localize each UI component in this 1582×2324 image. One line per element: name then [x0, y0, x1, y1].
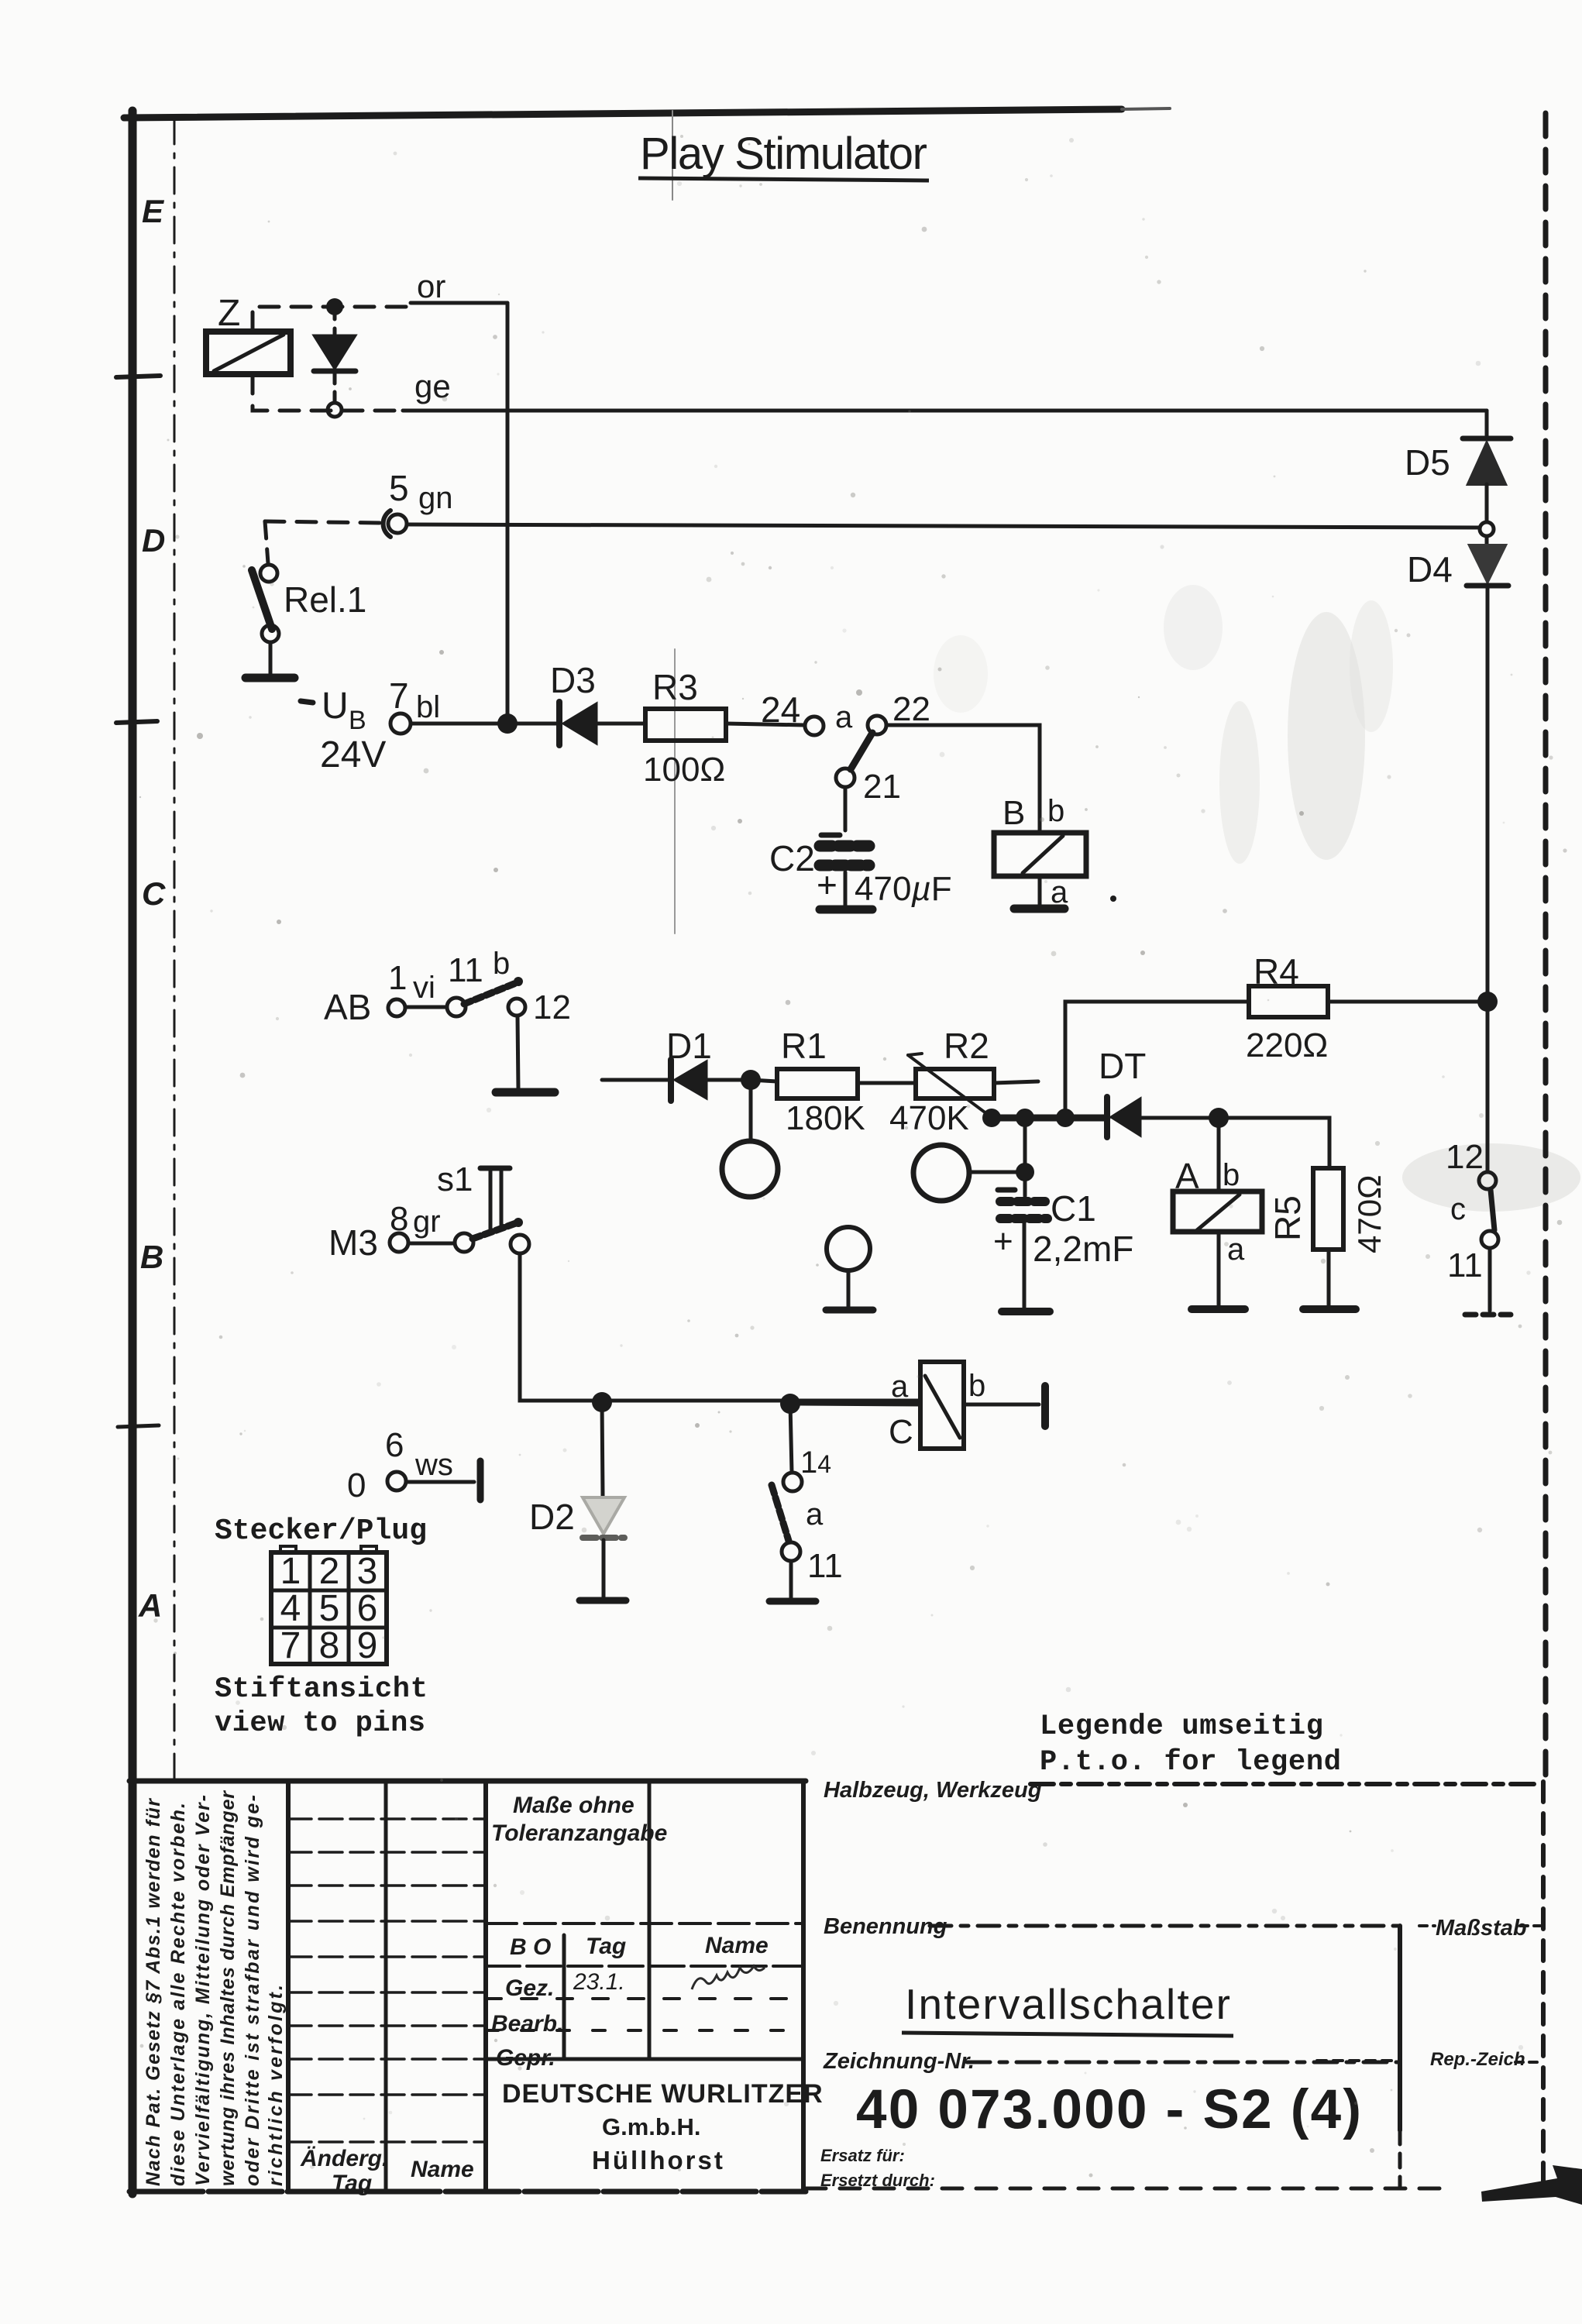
svg-text:b: b: [1223, 1158, 1240, 1192]
svg-text:220Ω: 220Ω: [1246, 1026, 1328, 1064]
svg-text:gr: gr: [413, 1205, 441, 1239]
ground R5: [1303, 1305, 1356, 1313]
svg-text:view to pins: view to pins: [215, 1707, 425, 1740]
ground relay B: [1014, 905, 1064, 913]
pushbutton s1: [480, 1168, 510, 1230]
resistor R1: [777, 1069, 858, 1098]
diode D5: [1463, 438, 1511, 521]
svg-text:2,2mF: 2,2mF: [1033, 1229, 1133, 1269]
labels lower section: [324, 947, 985, 1585]
svg-text:11: 11: [807, 1547, 843, 1585]
lamp La3: [827, 1227, 870, 1307]
svg-text:Gez.: Gez.: [505, 1975, 554, 2001]
switch M3 output contact: [511, 1235, 529, 1253]
wire or: [411, 301, 507, 305]
svg-text:Tag: Tag: [586, 1934, 626, 1959]
svg-text:Maße ohne: Maße ohne: [513, 1793, 635, 1818]
svg-text:470Ω: 470Ω: [1351, 1175, 1388, 1253]
wire R3 to terminal 24: [726, 724, 805, 725]
wire right rail to contact 12: [1486, 1002, 1490, 1171]
svg-text:Ersatz für:: Ersatz für:: [820, 2146, 905, 2165]
switch blade 22-21: [851, 733, 872, 769]
lamp La2: [913, 1145, 1016, 1201]
svg-text:DEUTSCHE WURLITZER: DEUTSCHE WURLITZER: [502, 2079, 824, 2109]
svg-text:+: +: [993, 1222, 1013, 1260]
bus wire main: [989, 1115, 1107, 1122]
svg-text:8: 8: [390, 1200, 408, 1238]
title block (decorative frame): [129, 1781, 1540, 2192]
diode D1: [671, 1060, 741, 1101]
revision arrow mark: [1481, 2165, 1582, 2205]
switch AB contact 1: [388, 999, 405, 1016]
terminal 7 UB: [390, 713, 411, 734]
terminal bar ws: [477, 1461, 484, 1500]
svg-text:2: 2: [319, 1551, 340, 1592]
svg-text:b: b: [968, 1369, 985, 1403]
wire dashed relay Z to node or: [253, 307, 411, 332]
wire down to Rel.1: [265, 521, 268, 563]
node D1 R1 junction: [741, 1070, 761, 1090]
svg-text:Legende umseitig: Legende umseitig: [1040, 1710, 1323, 1743]
svg-text:6: 6: [357, 1588, 378, 1629]
svg-text:Maßstab: Maßstab: [1436, 1916, 1527, 1941]
node 5gn on right rail: [1480, 522, 1494, 536]
switch M3 contact 8: [390, 1233, 408, 1252]
svg-text:a: a: [891, 1370, 909, 1404]
wire ge corner down to D5: [1485, 411, 1489, 438]
wire contact 12 down: [518, 1016, 518, 1089]
node lamp2 C1: [1016, 1163, 1034, 1181]
wire 21 to C2: [844, 787, 848, 830]
wire R1 to R2: [858, 1081, 916, 1085]
svg-text:180K: 180K: [786, 1099, 865, 1137]
labels middle section: [666, 1026, 1484, 1284]
ground AB 12: [496, 1088, 555, 1097]
svg-text:Stecker/Plug: Stecker/Plug: [215, 1514, 427, 1548]
svg-text:Benennung: Benennung: [824, 1914, 947, 1939]
company name: [502, 2079, 824, 2174]
switch M3 centre contact: [455, 1233, 473, 1252]
svg-text:Name: Name: [705, 1933, 769, 1958]
svg-text:5: 5: [389, 468, 409, 508]
wire right rail D4 to R4 node: [1486, 587, 1490, 1002]
ground Rel.1: [246, 674, 294, 682]
svg-text:D5: D5: [1405, 442, 1450, 483]
diode D2: [583, 1497, 624, 1597]
node R4 branch on bus: [1056, 1109, 1075, 1127]
wire ge to right rail: [403, 409, 1487, 413]
svg-text:21: 21: [863, 768, 901, 806]
wire M3 down to bottom bus: [520, 1253, 919, 1401]
wire node to switch 14: [790, 1404, 792, 1473]
scan smudges (decorative): [934, 585, 1580, 1212]
svg-text:Zeichnung-Nr.: Zeichnung-Nr.: [823, 2049, 975, 2074]
ground relay A: [1192, 1305, 1245, 1313]
svg-text:22: 22: [892, 690, 930, 728]
svg-text:Gepr.: Gepr.: [496, 2045, 555, 2071]
svg-text:U: U: [322, 686, 349, 727]
connector pin view Stecker/Plug: [215, 1514, 428, 1740]
svg-text:a: a: [1051, 875, 1068, 909]
legal notice rotated: [143, 1790, 287, 2186]
svg-text:or: or: [417, 268, 445, 304]
ground C1: [1002, 1308, 1050, 1315]
svg-text:23.1.: 23.1.: [573, 1969, 625, 1995]
svg-text:470µF: 470µF: [855, 870, 952, 908]
ground switch 11: [769, 1598, 816, 1605]
zone letters: [138, 193, 166, 1624]
svg-text:D1: D1: [666, 1026, 712, 1066]
svg-text:R4: R4: [1254, 951, 1299, 992]
svg-text:B: B: [1003, 794, 1025, 832]
relay B coil: [994, 833, 1086, 906]
svg-text:b: b: [493, 947, 510, 981]
svg-text:Rel.1: Rel.1: [284, 579, 366, 620]
svg-text:vi: vi: [413, 971, 435, 1005]
relay Z coil: [206, 332, 291, 374]
svg-text:6: 6: [385, 1426, 404, 1464]
switch AB contact 11: [447, 998, 466, 1016]
relay A coil: [1173, 1191, 1262, 1306]
svg-text:Tag: Tag: [332, 2171, 372, 2196]
svg-text:7: 7: [389, 676, 409, 716]
svg-text:a: a: [1227, 1232, 1245, 1267]
svg-text:b: b: [1047, 794, 1064, 828]
handwritten entries: [573, 1966, 765, 1995]
wire or vertical rail: [506, 303, 510, 724]
svg-text:3: 3: [357, 1551, 378, 1592]
svg-text:14: 14: [800, 1446, 831, 1480]
wire ws: [406, 1480, 474, 1484]
svg-text:Stiftansicht: Stiftansicht: [215, 1673, 428, 1706]
switch M3 blade: [473, 1223, 516, 1239]
svg-text:a: a: [835, 700, 853, 734]
note legend: [1040, 1710, 1341, 1779]
node D2 branch: [592, 1392, 612, 1412]
wire 5gn to right rail node: [407, 524, 1479, 528]
wire contact 11 to ground: [1488, 1249, 1492, 1311]
potentiometer R2: [908, 1054, 1038, 1116]
wire left rail to D1: [602, 1078, 671, 1082]
svg-text:11: 11: [1447, 1246, 1483, 1284]
svg-text:C1: C1: [1051, 1188, 1096, 1229]
switch contact 11 right: [1481, 1231, 1498, 1248]
svg-text:24: 24: [761, 689, 800, 730]
wire bus down to C1: [1023, 1118, 1027, 1196]
svg-text:E: E: [142, 193, 165, 229]
node R4 right rail: [1477, 992, 1498, 1012]
switch contact 12 right: [1479, 1172, 1496, 1189]
svg-text:D: D: [142, 522, 165, 559]
switch contact 21: [836, 768, 855, 787]
wire contact 11 to ground: [789, 1561, 793, 1598]
svg-text:12: 12: [1446, 1138, 1484, 1176]
ground contact 11: [1465, 1312, 1511, 1318]
svg-text:A: A: [138, 1587, 162, 1624]
ground D2: [579, 1597, 626, 1604]
node circle at ge: [328, 403, 342, 417]
svg-text:9: 9: [357, 1625, 378, 1666]
svg-text:Halbzeug, Werkzeug: Halbzeug, Werkzeug: [824, 1778, 1042, 1803]
svg-text:1: 1: [388, 959, 407, 997]
scan speckle noise (decorative): [139, 135, 1567, 2178]
svg-text:a: a: [806, 1497, 824, 1532]
svg-text:+: +: [817, 865, 837, 905]
switch contact 14: [783, 1473, 802, 1491]
relay C coil: [920, 1362, 964, 1449]
svg-text:Nach Pat. Gesetz §7 Abs.1 werd: Nach Pat. Gesetz §7 Abs.1 werden für: [143, 1798, 164, 2186]
svg-text:Rep.-Zeich: Rep.-Zeich: [1430, 2049, 1525, 2070]
wire R4 to right rail: [1328, 1000, 1480, 1004]
switch Rel.1: [252, 565, 279, 674]
svg-text:M3: M3: [328, 1222, 378, 1263]
node DT relay A junction: [1209, 1108, 1229, 1128]
svg-text:P.t.o. for legend: P.t.o. for legend: [1040, 1746, 1341, 1779]
resistor R4: [1249, 986, 1328, 1017]
svg-text:AB: AB: [324, 987, 371, 1027]
svg-text:12: 12: [533, 988, 571, 1026]
label -UB 24V: [301, 686, 386, 775]
ground C2: [820, 906, 872, 914]
svg-text:40 073.000 - S2 (4): 40 073.000 - S2 (4): [856, 2079, 1361, 2140]
node dot at or: [326, 298, 343, 315]
svg-text:diese Unterlage alle Rechte vo: diese Unterlage alle Rechte vorbeh.: [167, 1803, 189, 2186]
wire relay C to terminal b: [964, 1403, 1039, 1407]
svg-text:c: c: [1450, 1192, 1466, 1226]
svg-text:A: A: [1175, 1156, 1199, 1196]
wire node down to relay A: [1217, 1118, 1221, 1191]
node switch 14 branch: [780, 1394, 800, 1414]
svg-text:Toleranzangabe: Toleranzangabe: [491, 1820, 667, 1846]
node C1 branch on bus: [1016, 1109, 1034, 1127]
svg-text:gn: gn: [418, 481, 453, 515]
wire R4 left corner down to bus: [1065, 1002, 1249, 1116]
lamp La1: [722, 1090, 778, 1197]
resistor R5: [1313, 1168, 1343, 1306]
switch blade 14-11: [772, 1485, 789, 1541]
wire AB: [406, 1006, 447, 1009]
svg-text:C2: C2: [769, 838, 815, 878]
svg-text:Name: Name: [411, 2157, 474, 2182]
wire 5gn dashed: [265, 521, 381, 523]
svg-text:bl: bl: [416, 690, 440, 724]
wire D2 branch: [602, 1402, 603, 1496]
svg-text:7: 7: [280, 1625, 301, 1666]
wire bus to relay C: [800, 1404, 920, 1404]
svg-text:Bearb.: Bearb.: [491, 2011, 563, 2037]
wire M3: [408, 1242, 455, 1246]
svg-text:1: 1: [280, 1551, 301, 1592]
node junction UB rail: [497, 713, 518, 734]
svg-text:Hüllhorst: Hüllhorst: [592, 2146, 725, 2174]
svg-text:100Ω: 100Ω: [643, 751, 725, 789]
terminal 24: [805, 717, 824, 735]
svg-text:oder Dritte ist strafbar und w: oder Dritte ist strafbar und wird ge-: [242, 1795, 263, 2186]
switch contact 11 bottom: [782, 1542, 800, 1561]
switch contact 22: [868, 716, 886, 734]
svg-text:C: C: [142, 875, 166, 912]
node pot wiper on bus: [982, 1109, 1001, 1127]
svg-text:24V: 24V: [320, 734, 386, 775]
wire to R5: [1219, 1118, 1329, 1168]
svg-text:11: 11: [448, 951, 483, 989]
svg-text:B: B: [349, 706, 366, 735]
svg-text:D4: D4: [1407, 549, 1453, 590]
terminal bar b: [1041, 1386, 1049, 1426]
resistor R3: [645, 709, 726, 741]
svg-text:4: 4: [280, 1588, 301, 1629]
svg-text:R5: R5: [1267, 1195, 1308, 1241]
sheet frame (decorative): [124, 109, 1122, 118]
svg-text:D2: D2: [529, 1497, 575, 1537]
terminal 5 connector: [383, 511, 407, 537]
switch blade c: [1491, 1190, 1494, 1230]
svg-text:ws: ws: [414, 1448, 453, 1482]
svg-text:R2: R2: [944, 1026, 989, 1066]
wire node to D3: [518, 722, 556, 726]
capacitor C1: [998, 1190, 1047, 1308]
svg-text:8: 8: [319, 1625, 340, 1666]
diode D3: [559, 702, 645, 745]
switch AB blade to b: [464, 983, 516, 1004]
svg-text:B: B: [140, 1239, 163, 1275]
svg-text:C: C: [889, 1413, 913, 1451]
svg-text:470K: 470K: [889, 1099, 969, 1137]
svg-text:B O: B O: [510, 1934, 551, 1960]
ground lamp La3: [826, 1307, 873, 1314]
svg-text:R1: R1: [781, 1026, 827, 1066]
svg-text:Intervallschalter: Intervallschalter: [905, 1980, 1230, 2028]
svg-text:0: 0: [347, 1466, 366, 1504]
switch AB contact 12: [508, 999, 525, 1016]
svg-text:Z: Z: [218, 293, 240, 334]
svg-text:Ersetzt durch:: Ersetzt durch:: [820, 2171, 935, 2190]
svg-text:wertung ihres Inhaltes durch E: wertung ihres Inhaltes durch Empfänger: [217, 1790, 239, 2186]
svg-text:5: 5: [319, 1588, 340, 1629]
wire 7bl to node: [411, 722, 499, 726]
svg-text:s1: s1: [437, 1160, 473, 1198]
wire 22 to relay B: [886, 725, 1040, 831]
title block small labels: [300, 1778, 1527, 2196]
diode across relay Z: [314, 307, 356, 402]
labels top section: [218, 268, 1453, 1064]
terminal 6 ws: [387, 1472, 406, 1490]
svg-text:G.m.b.H.: G.m.b.H.: [602, 2113, 700, 2140]
svg-text:R3: R3: [652, 667, 698, 707]
capacitor C2: [820, 835, 869, 906]
diode D4: [1467, 536, 1508, 586]
svg-text:DT: DT: [1099, 1046, 1146, 1086]
diode DT: [1107, 1097, 1210, 1137]
wire dashed relay Z to node ge: [253, 374, 403, 411]
